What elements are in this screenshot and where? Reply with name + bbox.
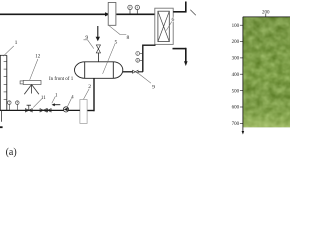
svg-text:9: 9: [85, 35, 88, 41]
svg-text:1: 1: [15, 40, 18, 46]
svg-text:2: 2: [88, 84, 91, 90]
svg-text:600: 600: [232, 106, 240, 111]
svg-text:12: 12: [35, 54, 41, 59]
svg-text:200: 200: [232, 40, 240, 45]
svg-text:In front of 1: In front of 1: [49, 75, 74, 82]
svg-text:700: 700: [232, 122, 240, 127]
svg-text:200: 200: [262, 10, 270, 15]
svg-text:100: 100: [232, 24, 240, 29]
svg-text:1: 1: [55, 93, 58, 98]
svg-text:(a): (a): [6, 147, 17, 158]
svg-text:500: 500: [232, 89, 240, 94]
svg-text:300: 300: [232, 57, 240, 62]
svg-text:9: 9: [152, 85, 155, 91]
svg-text:6: 6: [172, 17, 175, 23]
svg-text:400: 400: [232, 73, 240, 78]
svg-text:11: 11: [41, 96, 46, 101]
svg-text:4: 4: [71, 95, 74, 100]
svg-text:8: 8: [127, 35, 130, 41]
svg-text:5: 5: [115, 39, 118, 45]
